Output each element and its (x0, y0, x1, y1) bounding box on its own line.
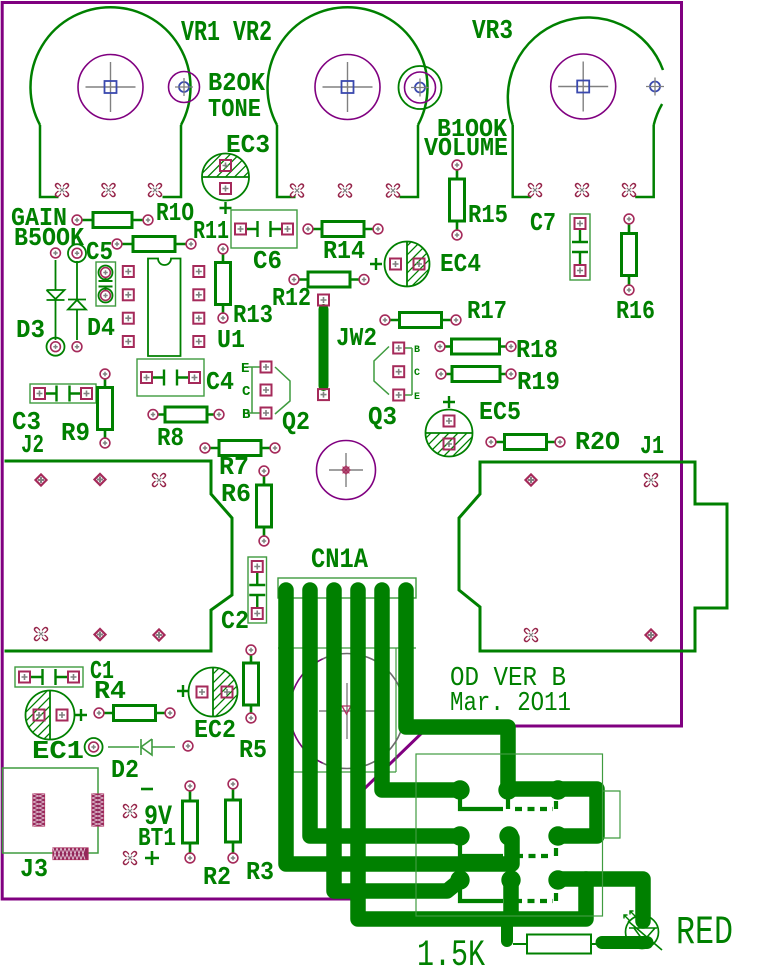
svg-text:R14: R14 (323, 236, 365, 266)
resistor R15 (450, 160, 465, 240)
capacitor C2 (248, 557, 267, 623)
svg-text:R19: R19 (517, 367, 560, 397)
capacitor C5 (96, 262, 116, 306)
trace row3 to LED (559, 879, 643, 921)
electrolytic capacitor EC1 (0, 691, 129, 740)
svg-text:Q2: Q2 (282, 407, 310, 437)
VR3 mount hole (646, 78, 664, 96)
svg-text:R16: R16 (616, 296, 655, 326)
mount hole center (317, 441, 376, 500)
svg-text:R4: R4 (94, 676, 126, 706)
jack J1 outline (459, 462, 727, 651)
diode D3 (47, 248, 65, 356)
resistor R14 (303, 222, 383, 237)
VR1 pin pads (57, 185, 159, 194)
svg-text:C4: C4 (206, 367, 234, 397)
resistor R17 (380, 313, 461, 328)
capacitor C6 (231, 210, 297, 248)
resistor R13 (216, 244, 231, 323)
resistor R16 (622, 214, 637, 295)
svg-text:EC4: EC4 (440, 249, 481, 279)
diode D2 (85, 738, 193, 756)
resistor R4 (94, 706, 175, 721)
svg-text:R1O: R1O (156, 198, 194, 228)
trace 1.5K stub (501, 919, 513, 941)
svg-text:1.5K: 1.5K (417, 935, 486, 977)
J2 pads (35, 474, 164, 641)
IC U1 (123, 259, 205, 357)
svg-text:R2O: R2O (575, 427, 620, 457)
svg-text:B: B (414, 345, 420, 356)
svg-text:VR3: VR3 (472, 17, 513, 47)
switch pads row1 (450, 780, 567, 799)
resistor R5 (244, 645, 259, 723)
VR2 mount hole (399, 66, 442, 109)
svg-text:C: C (242, 384, 251, 400)
svg-text:TONE: TONE (208, 94, 261, 124)
switch pads row3 (450, 870, 567, 889)
svg-text:C2: C2 (221, 606, 249, 636)
VR1 mount hole (169, 72, 200, 103)
svg-text:EC3: EC3 (226, 130, 270, 160)
svg-text:R11: R11 (193, 216, 229, 246)
svg-text:RED: RED (676, 911, 733, 956)
svg-text:R18: R18 (516, 335, 558, 365)
big circle footprint (290, 654, 405, 769)
trace CN1A pin5 (382, 590, 458, 790)
svg-text:D4: D4 (87, 313, 115, 343)
svg-text:R3: R3 (246, 857, 274, 887)
Q2 pin labels E C B (241, 361, 251, 423)
svg-text:C5: C5 (86, 237, 113, 267)
VR2 pin pads (292, 186, 397, 195)
capacitor C3 (30, 384, 96, 403)
resistor R3 (226, 779, 241, 863)
trace CN1A pin2 (310, 590, 457, 836)
resistor R7 (200, 441, 280, 456)
svg-text:C7: C7 (530, 208, 556, 238)
potentiometer VR2 (268, 7, 428, 197)
svg-text:R12: R12 (272, 283, 311, 313)
resistor R8 (148, 407, 224, 422)
svg-text:VR1 VR2: VR1 VR2 (181, 16, 272, 49)
svg-text:R6: R6 (221, 479, 251, 509)
J3 pad strip right (92, 794, 104, 826)
svg-text:R9: R9 (61, 418, 90, 448)
label plus (145, 851, 159, 865)
resistor R20 (486, 435, 565, 450)
resistor R19 (436, 367, 516, 382)
switch row2 links (460, 838, 556, 856)
svg-text:E: E (414, 392, 420, 403)
transistor Q3 (374, 343, 412, 401)
jack J2 outline (5, 461, 233, 651)
svg-text:VOLUME: VOLUME (424, 133, 508, 163)
svg-text:R15: R15 (468, 200, 508, 230)
trace 1.5K to LED (602, 936, 647, 949)
resistor R2 (183, 781, 198, 863)
svg-text:B: B (242, 407, 251, 423)
label minus (141, 788, 153, 791)
resistor R12 (289, 272, 369, 287)
Q3 pin labels B C E (414, 345, 420, 403)
svg-text:C: C (414, 368, 420, 379)
trace CN1A pin3 (334, 590, 458, 891)
J1 pads (525, 474, 656, 640)
electrolytic capacitor EC3 (148, 154, 303, 215)
battery pad plus (125, 853, 134, 862)
potentiometer VR1 (31, 7, 191, 197)
trace CN1A pin1 (286, 590, 512, 864)
capacitor C7 (570, 214, 590, 280)
svg-text:E: E (241, 361, 249, 377)
switch outline (416, 754, 620, 916)
trace CN1A pin6 (406, 590, 508, 789)
svg-text:D2: D2 (111, 755, 139, 785)
svg-text:EC2: EC2 (194, 715, 236, 745)
resistor R11 (112, 237, 196, 252)
svg-text:EC1: EC1 (32, 736, 84, 766)
VR3 pin pads (530, 185, 633, 194)
LED RED (624, 911, 662, 950)
resistor 1.5K body (513, 935, 600, 954)
trace row3 middle stub (503, 881, 519, 915)
svg-text:R8: R8 (157, 423, 184, 453)
J3 pad strip left (33, 794, 45, 826)
svg-text:J2: J2 (21, 430, 44, 460)
potentiometer VR3 (508, 17, 663, 197)
svg-text:CN1A: CN1A (311, 545, 368, 576)
connector CN1A outline (278, 578, 416, 772)
svg-text:C6: C6 (253, 246, 282, 276)
svg-text:Mar. 2O11: Mar. 2O11 (450, 689, 571, 719)
svg-text:J3: J3 (20, 854, 48, 884)
trace CN1A pin4 (358, 590, 586, 919)
jumper JW2 (318, 295, 329, 401)
svg-text:JW2: JW2 (336, 323, 377, 353)
svg-text:EC5: EC5 (479, 397, 521, 427)
switch pads row2 (450, 826, 567, 845)
switch row3 links (460, 882, 556, 901)
svg-text:J1: J1 (640, 431, 664, 461)
trace row1 to row2 link (510, 789, 597, 836)
svg-text:D3: D3 (16, 315, 45, 345)
transistor Q2 (248, 362, 290, 419)
diode D4 (68, 244, 86, 351)
svg-text:R2: R2 (203, 862, 231, 892)
svg-text:BT1: BT1 (138, 823, 176, 853)
svg-text:R17: R17 (467, 296, 507, 326)
electrolytic capacitor EC5 (372, 396, 527, 457)
capacitor C4 (137, 359, 204, 396)
battery pad minus (125, 806, 134, 815)
capacitor C1 (15, 667, 83, 687)
svg-text:R7: R7 (219, 452, 249, 482)
resistor R18 (435, 339, 516, 354)
electrolytic capacitor EC2 (135, 668, 292, 717)
resistor R6 (257, 466, 272, 546)
svg-text:Q3: Q3 (368, 402, 397, 432)
switch row1 links (460, 792, 556, 809)
J3 pad strip bottom (53, 848, 88, 860)
connector J3 outline (3, 768, 99, 853)
resistor R10 (72, 213, 153, 228)
resistor R9 (98, 369, 113, 448)
svg-text:U1: U1 (217, 325, 245, 355)
svg-text:R5: R5 (239, 735, 267, 765)
electrolytic capacitor EC4 (331, 242, 484, 287)
